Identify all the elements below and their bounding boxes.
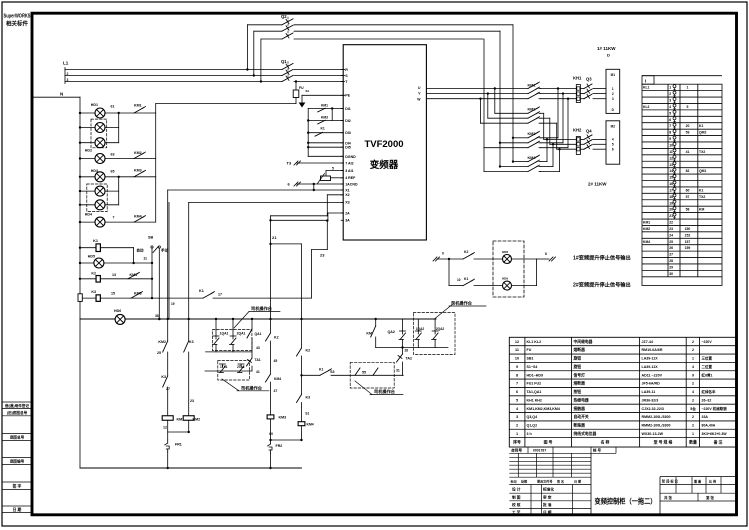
svg-text:11: 11 (515, 348, 519, 352)
svg-text:8: 8 (516, 373, 518, 377)
svg-text:60: 60 (269, 432, 273, 436)
svg-text:3 AI1: 3 AI1 (345, 169, 353, 173)
svg-text:JF5-6A/RD: JF5-6A/RD (642, 382, 661, 386)
svg-text:1QA2: 1QA2 (416, 327, 425, 331)
svg-text:备 注: 备 注 (713, 440, 723, 445)
svg-text:1ACND: 1ACND (345, 182, 358, 186)
svg-text:0001787: 0001787 (533, 449, 546, 453)
svg-text:S1: S1 (305, 412, 309, 416)
svg-text:33A: 33A (702, 415, 709, 419)
svg-text:K1: K1 (199, 289, 204, 293)
svg-text:6: 6 (669, 118, 671, 122)
svg-text:25: 25 (157, 351, 161, 355)
svg-text:QM1: QM1 (699, 169, 706, 173)
svg-text:2TA1: 2TA1 (237, 365, 245, 369)
svg-text:R: R (345, 68, 348, 72)
svg-text:K3: K3 (91, 290, 96, 294)
svg-text:HD8: HD8 (502, 250, 508, 254)
svg-text:2: 2 (692, 423, 694, 427)
svg-text:手动: 手动 (161, 248, 169, 253)
svg-text:M1: M1 (611, 73, 616, 77)
svg-text:1: 1 (692, 432, 694, 436)
svg-text:5: 5 (332, 167, 334, 171)
svg-text:KM2: KM2 (134, 151, 142, 155)
svg-text:DI1: DI1 (345, 107, 351, 111)
svg-text:熔断器: 熔断器 (574, 381, 586, 386)
svg-text:二位置: 二位置 (702, 364, 713, 369)
svg-text:2A: 2A (345, 211, 350, 215)
svg-text:41: 41 (256, 370, 260, 374)
svg-text:Q1: Q1 (281, 59, 287, 64)
svg-text:22: 22 (669, 221, 673, 225)
svg-text:FR2: FR2 (276, 444, 283, 448)
svg-text:3A: 3A (345, 219, 350, 223)
svg-text:K1: K1 (699, 124, 703, 128)
svg-text:KH1 KH2: KH1 KH2 (527, 398, 542, 402)
svg-text:三位置: 三位置 (702, 356, 713, 361)
svg-text:1TA1: 1TA1 (220, 365, 228, 369)
svg-text:AD11 ~220V: AD11 ~220V (642, 373, 663, 377)
svg-text:K1: K1 (321, 127, 325, 131)
svg-text:RMM2-100L/3300: RMM2-100L/3300 (642, 423, 671, 427)
svg-text:3K3+6K2+0.3W: 3K3+6K2+0.3W (702, 432, 728, 436)
svg-text:T3: T3 (287, 161, 292, 166)
svg-text:WX30-13-2W: WX30-13-2W (642, 432, 664, 436)
svg-text:Q1,Q2: Q1,Q2 (527, 423, 538, 427)
svg-text:签 字: 签 字 (12, 483, 22, 488)
svg-text:82: 82 (686, 169, 690, 173)
svg-text:X1: X1 (345, 188, 349, 192)
svg-text:处数: 处数 (520, 479, 528, 484)
svg-text:5: 5 (516, 398, 518, 402)
svg-text:KH2: KH2 (573, 128, 582, 133)
svg-text:热继电器: 热继电器 (574, 397, 589, 402)
svg-text:更改文件号: 更改文件号 (537, 479, 552, 484)
svg-text:~220V: ~220V (702, 340, 713, 344)
svg-text:Q4: Q4 (586, 129, 592, 134)
svg-text:10: 10 (457, 278, 461, 282)
svg-text:Q3,Q4: Q3,Q4 (527, 415, 538, 419)
svg-text:KM3: KM3 (528, 132, 536, 136)
svg-text:2: 2 (669, 92, 671, 96)
svg-text:13: 13 (669, 163, 673, 167)
svg-text:25: 25 (669, 240, 673, 244)
svg-text:日 期: 日 期 (13, 507, 22, 512)
svg-text:N: N (60, 92, 63, 97)
svg-text:合同号: 合同号 (510, 448, 522, 453)
svg-text:K1: K1 (319, 368, 323, 372)
svg-text:K1: K1 (93, 239, 98, 243)
svg-text:157: 157 (685, 240, 691, 244)
svg-text:1#变频提升停止信号输出: 1#变频提升停止信号输出 (573, 254, 631, 262)
svg-text:自动开关: 自动开关 (574, 414, 589, 419)
svg-text:变频控制柜（一拖二）: 变频控制柜（一拖二） (595, 497, 657, 506)
svg-text:自动: 自动 (136, 248, 144, 253)
svg-text:28: 28 (405, 349, 409, 353)
svg-text:变频器: 变频器 (370, 159, 399, 171)
svg-text:KM4: KM4 (134, 215, 142, 219)
svg-text:4: 4 (692, 390, 694, 394)
svg-text:20: 20 (669, 208, 673, 212)
svg-text:KM2: KM2 (193, 418, 201, 422)
svg-text:2: 2 (692, 415, 694, 419)
svg-text:KM3: KM3 (134, 292, 142, 296)
svg-text:57: 57 (686, 195, 690, 199)
svg-text:KM2: KM2 (643, 227, 650, 231)
svg-text:11: 11 (143, 257, 147, 261)
svg-text:150: 150 (685, 227, 691, 231)
svg-text:RMM2-100L/3300: RMM2-100L/3300 (642, 415, 671, 419)
svg-text:KM3: KM3 (134, 169, 142, 173)
svg-text:1: 1 (612, 87, 614, 91)
svg-text:2: 2 (692, 398, 694, 402)
svg-text:KM3: KM3 (321, 116, 328, 120)
svg-text:红绿各半: 红绿各半 (702, 389, 716, 394)
svg-text:SB: SB (148, 236, 154, 240)
svg-text:47: 47 (274, 389, 278, 393)
svg-text:名 称: 名 称 (601, 440, 610, 445)
svg-text:I: I (645, 78, 646, 83)
svg-text:2# 11KW: 2# 11KW (588, 182, 607, 187)
svg-text:KM4: KM4 (643, 240, 650, 244)
svg-text:KL2: KL2 (643, 105, 650, 109)
svg-text:X2: X2 (345, 193, 349, 197)
svg-text:HD9: HD9 (502, 277, 508, 281)
svg-text:司机操作台: 司机操作台 (251, 305, 272, 312)
svg-text:X3: X3 (345, 201, 349, 205)
svg-text:27: 27 (669, 253, 673, 257)
svg-text:9: 9 (692, 373, 694, 377)
svg-text:KM1: KM1 (130, 273, 138, 277)
svg-text:重 量: 重 量 (694, 479, 702, 484)
svg-text:18: 18 (669, 195, 673, 199)
svg-text:21: 21 (272, 235, 277, 240)
svg-text:KM4: KM4 (307, 423, 314, 427)
svg-text:标准化: 标准化 (542, 487, 554, 492)
svg-text:司机操作台: 司机操作台 (241, 385, 262, 392)
svg-text:K3: K3 (189, 340, 194, 344)
svg-text:5台: 5台 (690, 406, 696, 411)
svg-text:旋钮: 旋钮 (573, 356, 582, 361)
svg-text:TX2: TX2 (699, 195, 705, 199)
svg-text:K1: K1 (464, 277, 468, 281)
svg-text:1: 1 (687, 86, 689, 90)
svg-text:17: 17 (218, 293, 222, 297)
svg-text:2QA1: 2QA1 (237, 332, 246, 336)
svg-text:55: 55 (362, 371, 366, 375)
svg-text:4: 4 (692, 365, 694, 369)
svg-text:QM2: QM2 (699, 131, 706, 135)
svg-text:14: 14 (669, 169, 673, 173)
svg-text:KM1: KM1 (643, 221, 650, 225)
svg-text:KM: KM (366, 332, 372, 336)
svg-text:26: 26 (669, 246, 673, 250)
svg-text:63: 63 (111, 153, 115, 157)
svg-text:1: 1 (669, 86, 671, 90)
svg-text:80A,40A: 80A,40A (702, 423, 716, 427)
svg-text:中间继电器: 中间继电器 (574, 339, 593, 344)
svg-text:9: 9 (669, 137, 671, 141)
svg-text:5: 5 (669, 111, 671, 115)
svg-text:Q3: Q3 (586, 77, 592, 82)
svg-text:信号灯: 信号灯 (574, 372, 586, 377)
svg-text:HD5: HD5 (88, 255, 95, 259)
svg-text:HD4: HD4 (85, 213, 92, 217)
svg-text:M2: M2 (611, 125, 616, 129)
svg-text:19: 19 (171, 302, 175, 306)
svg-text:接触器: 接触器 (573, 406, 586, 411)
svg-text:1QA1: 1QA1 (220, 332, 229, 336)
svg-text:批 准: 批 准 (543, 502, 552, 507)
svg-text:15: 15 (111, 292, 115, 296)
svg-text:23: 23 (320, 253, 325, 258)
svg-text:59: 59 (686, 131, 690, 135)
svg-text:45: 45 (274, 359, 278, 363)
svg-text:11: 11 (669, 150, 673, 154)
svg-text:KM1: KM1 (177, 418, 185, 422)
svg-text:8: 8 (669, 131, 671, 135)
svg-text:JR36-32/3: JR36-32/3 (642, 398, 659, 402)
svg-text:K2: K2 (274, 336, 279, 340)
svg-text:LA39-11X: LA39-11X (642, 365, 659, 369)
svg-text:~220V 机械联锁: ~220V 机械联锁 (702, 406, 728, 411)
svg-text:K2: K2 (464, 250, 468, 254)
svg-text:12: 12 (163, 426, 167, 430)
svg-text:第 张: 第 张 (706, 495, 714, 500)
svg-text:工 艺: 工 艺 (512, 510, 521, 515)
svg-text:12: 12 (669, 156, 673, 160)
svg-text:7: 7 (113, 216, 115, 220)
svg-text:4: 4 (669, 105, 671, 109)
svg-text:31: 31 (396, 369, 400, 373)
svg-text:D: D (607, 53, 610, 58)
svg-text:FR1: FR1 (175, 443, 182, 447)
svg-text:10: 10 (515, 357, 519, 361)
svg-text:KM4: KM4 (274, 377, 281, 381)
svg-text:签 名: 签 名 (556, 479, 564, 484)
svg-text:SB1: SB1 (527, 357, 534, 361)
svg-text:Q2: Q2 (281, 14, 287, 19)
svg-text:1: 1 (692, 357, 694, 361)
svg-text:10: 10 (669, 143, 673, 147)
svg-text:KM: KM (699, 208, 704, 212)
svg-text:RM10-6A/6R: RM10-6A/6R (642, 348, 663, 352)
svg-text:20: 20 (686, 124, 690, 128)
svg-text:LA39-11X: LA39-11X (642, 357, 659, 361)
svg-text:KM1,KM2,KM3,KM4: KM1,KM2,KM3,KM4 (527, 407, 560, 411)
svg-text:阶 段 标 记: 阶 段 标 记 (662, 479, 679, 484)
svg-text:S3: S3 (330, 370, 334, 374)
svg-text:K2: K2 (306, 349, 311, 353)
svg-text:DI5: DI5 (345, 146, 351, 150)
svg-text:K2: K2 (91, 272, 96, 276)
svg-text:TA1,QA1: TA1,QA1 (527, 390, 542, 394)
svg-text:5: 5 (687, 105, 689, 109)
svg-text:26~32: 26~32 (702, 398, 712, 402)
svg-text:红8黄1: 红8黄1 (702, 372, 713, 377)
svg-text:3: 3 (67, 78, 69, 82)
svg-text:2#变频提升停止信号输出: 2#变频提升停止信号输出 (573, 281, 631, 289)
svg-text:KH1: KH1 (573, 76, 582, 81)
svg-text:152: 152 (685, 233, 691, 237)
svg-text:TVF2000: TVF2000 (364, 139, 403, 150)
svg-text:15: 15 (669, 176, 673, 180)
svg-text:FU1 FU2: FU1 FU2 (527, 382, 542, 386)
svg-text:KL1: KL1 (643, 86, 650, 90)
svg-text:K3: K3 (161, 375, 166, 379)
svg-text:7 AI2: 7 AI2 (345, 161, 353, 165)
svg-text:61: 61 (111, 105, 115, 109)
svg-text:KM3: KM3 (279, 416, 287, 420)
svg-text:27: 27 (166, 387, 170, 391)
svg-text:SuperWORKS: SuperWORKS (4, 14, 32, 20)
svg-text:7: 7 (669, 124, 671, 128)
svg-text:28: 28 (669, 259, 673, 263)
svg-text:3: 3 (612, 97, 614, 101)
svg-text:LA39-11: LA39-11 (642, 390, 656, 394)
svg-text:24: 24 (669, 233, 673, 237)
svg-text:8: 8 (545, 252, 547, 256)
svg-text:60: 60 (686, 188, 690, 192)
svg-text:HD3: HD3 (91, 169, 98, 173)
svg-text:HD6: HD6 (114, 309, 121, 313)
svg-text:38: 38 (155, 314, 159, 318)
svg-text:熔断器: 熔断器 (574, 347, 586, 352)
svg-text:2: 2 (516, 423, 518, 427)
svg-text:FU: FU (527, 348, 532, 352)
svg-text:设 计: 设 计 (512, 487, 521, 492)
svg-text:底图总号: 底图总号 (9, 435, 25, 440)
svg-text:12: 12 (515, 340, 519, 344)
svg-text:绕线式电位器: 绕线式电位器 (574, 431, 597, 436)
svg-text:9: 9 (516, 365, 518, 369)
svg-text:HD2: HD2 (85, 149, 92, 153)
svg-text:3: 3 (516, 415, 518, 419)
svg-text:按钮: 按钮 (574, 389, 582, 394)
svg-text:43: 43 (256, 346, 260, 350)
svg-text:KM1: KM1 (528, 83, 536, 87)
svg-text:DI4: DI4 (345, 141, 351, 145)
svg-text:159: 159 (685, 246, 691, 250)
svg-text:PE: PE (345, 94, 350, 98)
svg-text:K1: K1 (699, 188, 703, 192)
svg-text:标记: 标记 (510, 479, 518, 484)
svg-text:共 张: 共 张 (664, 495, 672, 500)
svg-text:13: 13 (112, 273, 116, 277)
svg-text:2: 2 (692, 340, 694, 344)
svg-text:16: 16 (669, 182, 673, 186)
svg-text:KM1: KM1 (321, 104, 328, 108)
svg-text:7: 7 (516, 382, 518, 386)
svg-text:2QA2: 2QA2 (436, 327, 445, 331)
svg-text:断路器: 断路器 (574, 422, 586, 427)
svg-text:DGND: DGND (345, 155, 356, 159)
svg-text:日 期: 日 期 (543, 510, 552, 515)
svg-text:23: 23 (669, 227, 673, 231)
svg-text:S1~S4: S1~S4 (527, 365, 538, 369)
svg-text:1: 1 (516, 432, 518, 436)
svg-text:底图编号: 底图编号 (9, 459, 25, 464)
svg-text:KL1 KL2: KL1 KL2 (527, 340, 542, 344)
svg-text:校 核: 校 核 (512, 502, 521, 507)
svg-text:序号: 序号 (512, 440, 521, 445)
svg-text:QA2: QA2 (388, 330, 395, 334)
svg-text:(旧)底图总号: (旧)底图总号 (7, 410, 28, 415)
svg-text:KM2: KM2 (528, 108, 536, 112)
svg-text:核 号: 核 号 (593, 447, 601, 452)
svg-text:相关标件: 相关标件 (6, 20, 29, 28)
svg-text:3 h: 3 h (527, 432, 532, 436)
svg-text:HD1~HD9: HD1~HD9 (527, 373, 543, 377)
svg-text:司机操作台: 司机操作台 (374, 388, 395, 395)
svg-text:DI2: DI2 (345, 119, 351, 123)
svg-text:KM4: KM4 (528, 156, 537, 160)
svg-text:23: 23 (190, 399, 194, 403)
svg-text:L1: L1 (63, 61, 69, 66)
svg-text:9: 9 (442, 252, 444, 256)
svg-text:型 号 规 格: 型 号 规 格 (654, 440, 673, 445)
svg-text:KM2: KM2 (158, 340, 166, 344)
svg-text:司机操作台: 司机操作台 (451, 300, 472, 307)
svg-text:K3: K3 (306, 396, 311, 400)
svg-text:制 图: 制 图 (512, 494, 521, 499)
svg-text:CJX2-32-22/3: CJX2-32-22/3 (642, 407, 664, 411)
svg-text:2: 2 (67, 72, 69, 76)
svg-text:图 号: 图 号 (544, 440, 553, 445)
svg-text:30: 30 (669, 272, 673, 276)
svg-text:5: 5 (612, 143, 614, 147)
svg-text:6: 6 (612, 148, 614, 152)
svg-text:21: 21 (669, 214, 673, 218)
svg-text:TA2: TA2 (406, 357, 413, 361)
svg-text:41: 41 (686, 150, 690, 154)
svg-text:3: 3 (669, 99, 671, 103)
svg-text:58: 58 (686, 208, 690, 212)
svg-text:TX2: TX2 (699, 150, 705, 154)
svg-text:TA1: TA1 (255, 358, 261, 362)
svg-text:日 期: 日 期 (574, 479, 581, 484)
svg-text:比 例: 比 例 (709, 479, 716, 484)
svg-text:FU: FU (299, 86, 304, 90)
svg-text:65: 65 (111, 170, 115, 174)
svg-text:审 定: 审 定 (543, 494, 552, 499)
svg-text:JZ7-44: JZ7-44 (642, 340, 653, 344)
svg-text:2: 2 (612, 92, 614, 96)
svg-text:19: 19 (669, 201, 673, 205)
svg-text:4: 4 (612, 138, 614, 142)
svg-text:29: 29 (669, 265, 673, 269)
svg-text:数量: 数量 (688, 440, 697, 445)
svg-text:KM1: KM1 (134, 104, 142, 108)
svg-text:2: 2 (692, 382, 694, 386)
svg-text:旋钮: 旋钮 (573, 364, 582, 369)
svg-text:1# 11KW: 1# 11KW (597, 46, 616, 51)
svg-text:17: 17 (669, 188, 673, 192)
svg-text:HD1: HD1 (91, 103, 98, 107)
svg-text:借(通)用件登记: 借(通)用件登记 (4, 403, 29, 408)
svg-text:2: 2 (692, 348, 694, 352)
svg-text:DI3: DI3 (345, 131, 351, 135)
svg-text:6: 6 (516, 390, 518, 394)
svg-text:4 REF: 4 REF (345, 176, 356, 180)
svg-text:QA1: QA1 (255, 332, 262, 336)
